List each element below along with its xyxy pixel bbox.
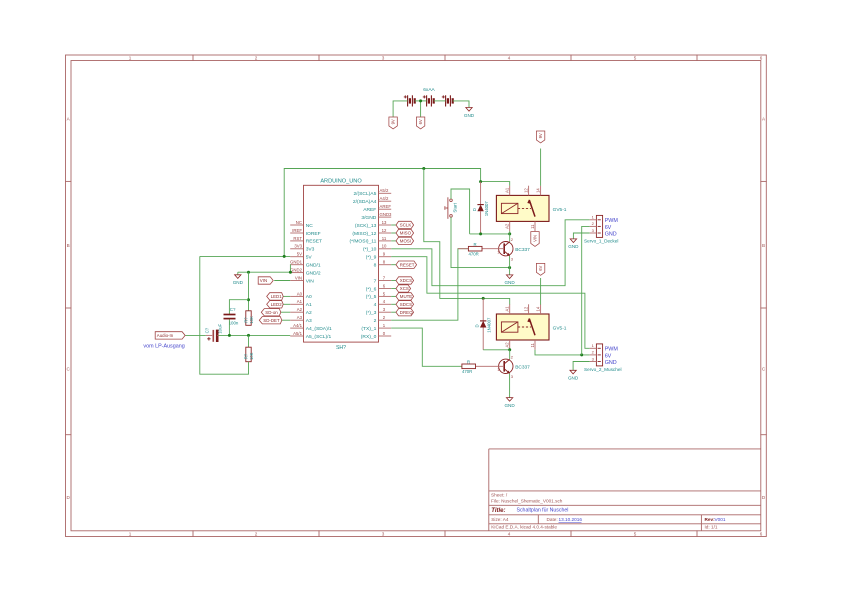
wire xyxy=(283,303,290,305)
global label LED1 xyxy=(267,293,284,300)
pin 1 xyxy=(379,327,392,329)
svg-text:2: 2 xyxy=(255,56,258,61)
svg-text:Title:: Title: xyxy=(491,508,505,514)
wire divider top xyxy=(248,272,250,311)
svg-text:10: 10 xyxy=(382,244,387,249)
global label SD-on xyxy=(261,309,281,316)
resistor R? divider top xyxy=(246,311,251,326)
wire xyxy=(274,280,290,282)
global label RESET xyxy=(396,261,417,268)
pin 11 xyxy=(379,240,392,242)
svg-text:1N4007: 1N4007 xyxy=(484,201,489,217)
global label 9V (battery +) xyxy=(389,117,397,129)
svg-text:A4/1: A4/1 xyxy=(293,323,302,328)
capacitor C? 10uF polarized xyxy=(204,323,222,342)
svg-text:A4_(SDA)/1: A4_(SDA)/1 xyxy=(306,326,332,332)
svg-text:A5_(SCL)/1: A5_(SCL)/1 xyxy=(306,334,332,340)
svg-text:A1: A1 xyxy=(505,306,510,312)
wire battery right to ground xyxy=(453,101,469,108)
svg-text:Sheet: /: Sheet: / xyxy=(491,492,508,497)
svg-text:4: 4 xyxy=(374,302,377,308)
global label SD-DET xyxy=(259,317,282,324)
svg-text:A2: A2 xyxy=(505,342,510,348)
svg-text:5: 5 xyxy=(634,531,637,536)
svg-text:3V3: 3V3 xyxy=(306,247,315,253)
svg-text:2/(SDA)A4: 2/(SDA)A4 xyxy=(353,199,377,205)
svg-text:6V: 6V xyxy=(605,225,612,231)
svg-text:SDCS: SDCS xyxy=(400,302,412,307)
svg-text:Size: A4: Size: A4 xyxy=(491,517,509,522)
svg-text:LED2: LED2 xyxy=(271,302,283,307)
wire xyxy=(391,224,396,226)
global label LED2 xyxy=(267,301,284,308)
wire battery left to 9V tap xyxy=(393,101,408,117)
svg-text:(SCK)_13: (SCK)_13 xyxy=(355,223,377,229)
pin 5 xyxy=(379,295,392,297)
resistor R? divider bottom xyxy=(246,347,251,362)
wire node row to A5 xyxy=(218,334,290,336)
pin GND/2 xyxy=(290,272,303,274)
svg-text:6: 6 xyxy=(760,56,763,61)
global label Audio-In xyxy=(155,332,185,339)
svg-text:DREQ: DREQ xyxy=(400,310,413,315)
svg-text:GND: GND xyxy=(605,360,617,366)
svg-text:6V: 6V xyxy=(418,119,423,124)
svg-text:RST: RST xyxy=(293,236,302,241)
svg-text:NC: NC xyxy=(306,223,314,229)
svg-text:ARDUINO_UNO: ARDUINO_UNO xyxy=(320,178,362,184)
global label VIN (arduino) xyxy=(258,277,273,284)
svg-text:9V: 9V xyxy=(391,119,396,124)
wire pin10 to servo1 PWM xyxy=(391,220,590,286)
svg-text:3V3: 3V3 xyxy=(294,244,302,249)
svg-text:6V: 6V xyxy=(538,265,543,270)
svg-text:SH?: SH? xyxy=(336,345,346,351)
svg-text:PWM: PWM xyxy=(605,347,619,353)
svg-text:(MISO)_12: (MISO)_12 xyxy=(352,231,376,237)
wire servo1 6V down xyxy=(582,226,590,355)
svg-text:5V: 5V xyxy=(297,252,302,257)
svg-text:BC337: BC337 xyxy=(515,364,530,370)
wire A2 stub xyxy=(509,350,511,359)
title block xyxy=(489,449,761,531)
svg-text:GND1: GND1 xyxy=(290,260,303,265)
svg-text:C?: C? xyxy=(204,327,209,333)
relay GV5-1 (1) xyxy=(496,186,566,231)
wire pin9 to servo2 PWM xyxy=(391,257,590,349)
wire xyxy=(391,288,396,290)
global label SCLK xyxy=(396,221,414,228)
svg-text:9V: 9V xyxy=(538,133,543,138)
global label XCS xyxy=(396,285,411,292)
svg-text:GND2: GND2 xyxy=(290,268,303,273)
svg-text:GND: GND xyxy=(568,376,579,381)
wire 6V to relay1 pin14 xyxy=(540,149,542,186)
pin 13 xyxy=(379,224,392,226)
wire C 100n to node xyxy=(228,320,230,336)
wire xyxy=(283,295,290,297)
svg-text:VIN: VIN xyxy=(306,278,315,284)
wire xyxy=(391,303,396,305)
svg-text:IOREF: IOREF xyxy=(306,231,321,237)
wire xyxy=(391,240,396,242)
global label 6V (battery tap) xyxy=(416,117,424,129)
svg-text:GND: GND xyxy=(504,280,515,285)
wire xyxy=(281,311,290,313)
resistor R? 470R (2) xyxy=(462,360,504,374)
transistor Q? BC337 (2) xyxy=(497,355,530,379)
svg-text:1: 1 xyxy=(129,56,132,61)
svg-text:V001: V001 xyxy=(715,517,726,522)
wire to C 100n xyxy=(229,300,248,314)
ground (servo2) xyxy=(568,370,579,380)
wire 6V to relay2 pin14 xyxy=(540,278,542,305)
svg-text:Servo_2_Muschel: Servo_2_Muschel xyxy=(584,367,622,372)
resistor R? 470R (1) xyxy=(458,242,504,256)
svg-text:MISO: MISO xyxy=(400,231,412,236)
svg-text:GND: GND xyxy=(464,113,475,118)
pin A2 xyxy=(290,311,303,313)
svg-text:3: 3 xyxy=(382,531,385,536)
svg-text:A3: A3 xyxy=(297,315,303,320)
svg-text:A1: A1 xyxy=(297,299,303,304)
svg-text:14: 14 xyxy=(535,306,540,311)
pin AREF xyxy=(379,208,392,210)
svg-text:GV5-1: GV5-1 xyxy=(553,207,567,213)
svg-text:12: 12 xyxy=(382,228,387,233)
battery BT 6xAA xyxy=(404,87,453,106)
wire bottom rail to 5V xyxy=(200,256,249,374)
svg-text:2/(SCL)A5: 2/(SCL)A5 xyxy=(353,191,376,197)
svg-text:D: D xyxy=(472,208,477,211)
wire audio-in xyxy=(185,334,205,336)
svg-text:Start: Start xyxy=(453,202,458,212)
wire servo1 gnd xyxy=(573,233,589,239)
svg-text:A2: A2 xyxy=(297,307,303,312)
svg-text:R?: R? xyxy=(243,317,248,323)
svg-text:NC: NC xyxy=(296,220,302,225)
wire relay1 A2 row xyxy=(470,233,510,235)
global label SDCS xyxy=(396,301,414,308)
svg-text:A5/2: A5/2 xyxy=(380,188,389,193)
wire A2 stub to row xyxy=(509,231,511,234)
svg-text:GND: GND xyxy=(568,244,579,249)
wire emitter2 to gnd xyxy=(509,374,511,398)
svg-text:(*)_9: (*)_9 xyxy=(366,255,377,261)
svg-text:GND/1: GND/1 xyxy=(306,263,321,269)
svg-text:A0: A0 xyxy=(297,291,303,296)
svg-text:A2: A2 xyxy=(505,223,510,229)
resistor body xyxy=(462,364,476,369)
svg-text:VIN: VIN xyxy=(533,235,538,242)
svg-text:12: 12 xyxy=(523,306,528,311)
svg-text:2: 2 xyxy=(374,318,377,324)
global label MOSI xyxy=(396,237,414,244)
pin 7 xyxy=(379,280,392,282)
pin A0 xyxy=(290,295,303,297)
svg-text:Schaltplan für Nuschel: Schaltplan für Nuschel xyxy=(517,508,569,514)
svg-text:6: 6 xyxy=(760,531,763,536)
svg-text:LED1: LED1 xyxy=(271,294,283,299)
wire relay2 A2 row xyxy=(483,349,510,351)
svg-text:(*)_6: (*)_6 xyxy=(366,286,377,292)
svg-text:XDCS: XDCS xyxy=(400,278,412,283)
svg-text:D: D xyxy=(475,324,480,327)
svg-text:13: 13 xyxy=(382,220,387,225)
pin GND3 xyxy=(379,216,392,218)
connector J? Servo_2_Muschel xyxy=(584,343,622,372)
svg-text:(*)_5: (*)_5 xyxy=(366,294,377,300)
svg-text:GND: GND xyxy=(605,231,617,237)
wire battery cell link with 6V tap xyxy=(415,100,427,102)
pin A4_(SDA)/1 xyxy=(290,327,303,329)
svg-text:Audio-In: Audio-In xyxy=(157,333,174,338)
global label VIN (relay1 out) xyxy=(531,232,539,247)
wire divider bottom xyxy=(248,335,250,347)
svg-text:(*)_3: (*)_3 xyxy=(366,310,377,316)
global label 9V (relay1 supply) xyxy=(536,131,544,143)
push button Start xyxy=(445,197,458,219)
diode D 1N4007 (1) xyxy=(472,182,489,234)
capacitor C? 100n xyxy=(224,307,239,325)
svg-text:Rev:: Rev: xyxy=(705,517,716,522)
svg-text:(*/MOSI)_11: (*/MOSI)_11 xyxy=(349,239,376,245)
svg-text:10K: 10K xyxy=(249,352,254,360)
svg-text:1: 1 xyxy=(129,531,132,536)
pin A4/2 xyxy=(379,200,392,202)
transistor Q? BC337 (1) xyxy=(497,237,530,261)
pin GND/1 xyxy=(290,264,303,266)
svg-text:10uF: 10uF xyxy=(218,323,223,333)
wire xyxy=(391,295,396,297)
svg-text:8: 8 xyxy=(374,263,377,269)
pin A5_(SCL)/1 xyxy=(290,335,303,337)
wire battery cell link xyxy=(434,100,446,102)
wire 5V rail to relay coils xyxy=(200,255,290,257)
svg-text:vom LP-Ausgang: vom LP-Ausgang xyxy=(143,343,184,349)
pin A5/2 xyxy=(379,192,392,194)
svg-text:A1: A1 xyxy=(505,187,510,193)
svg-text:AREF: AREF xyxy=(380,204,392,209)
svg-text:VIN: VIN xyxy=(295,275,302,280)
ground (servo1) xyxy=(568,239,579,249)
wire to relay1 A1 xyxy=(481,182,510,186)
wire xyxy=(391,280,396,282)
svg-text:MUTE: MUTE xyxy=(400,294,413,299)
wire ground rail xyxy=(238,271,291,273)
Arduino UNO module SH? xyxy=(290,178,392,350)
svg-text:3: 3 xyxy=(382,56,385,61)
pin 2 xyxy=(379,319,392,321)
pin 4 xyxy=(379,303,392,305)
svg-text:14: 14 xyxy=(535,188,540,193)
global label DREQ xyxy=(396,309,414,316)
svg-text:PWM: PWM xyxy=(605,218,619,224)
pin 5V xyxy=(290,256,303,258)
svg-text:13.10.2016: 13.10.2016 xyxy=(559,517,583,522)
wire pin1 to R2 xyxy=(391,328,462,366)
wire xyxy=(391,264,396,266)
svg-text:SD-DET: SD-DET xyxy=(263,318,280,323)
svg-text:6xAA: 6xAA xyxy=(423,87,435,93)
svg-text:11: 11 xyxy=(530,224,535,229)
svg-text:1N4007: 1N4007 xyxy=(486,317,491,333)
svg-text:IREF: IREF xyxy=(292,228,302,233)
svg-text:11: 11 xyxy=(382,236,387,241)
wire pin2 to R1 xyxy=(391,249,468,321)
ground (battery) xyxy=(464,108,475,118)
svg-text:GND3: GND3 xyxy=(380,212,393,217)
svg-text:GV5-1: GV5-1 xyxy=(553,326,567,332)
pin IOREF xyxy=(290,232,303,234)
global label MUTE xyxy=(396,293,414,300)
svg-text:470R: 470R xyxy=(462,369,472,374)
pin 9 xyxy=(379,256,392,258)
svg-text:R: R xyxy=(467,360,470,365)
wire xyxy=(282,319,290,321)
svg-text:BC337: BC337 xyxy=(515,247,530,253)
svg-text:A5/1: A5/1 xyxy=(293,331,302,336)
wire branch to relay2 xyxy=(424,169,510,305)
svg-text:Id: 1/1: Id: 1/1 xyxy=(705,525,718,530)
svg-text:GND/2: GND/2 xyxy=(306,270,321,276)
svg-text:RESET: RESET xyxy=(306,239,322,245)
svg-text:7: 7 xyxy=(374,278,377,284)
svg-text:10K: 10K xyxy=(249,316,254,324)
svg-text:SCLK: SCLK xyxy=(400,223,412,228)
svg-text:A4/2: A4/2 xyxy=(380,196,389,201)
svg-text:5: 5 xyxy=(634,56,637,61)
svg-text:AREF: AREF xyxy=(363,207,376,213)
diode D 1N4007 (2) xyxy=(475,298,492,349)
svg-text:3/GND: 3/GND xyxy=(361,215,376,221)
svg-text:A0: A0 xyxy=(306,294,312,300)
pin 3V3 xyxy=(290,248,303,250)
svg-text:Date:: Date: xyxy=(547,517,558,522)
svg-text:4: 4 xyxy=(508,56,511,61)
svg-text:KiCad E.D.A. kicad 4.0.4-stab: KiCad E.D.A. kicad 4.0.4-stable xyxy=(491,525,557,530)
svg-text:5V: 5V xyxy=(306,255,313,261)
svg-text:VIN: VIN xyxy=(260,278,267,283)
connector J? Servo_1_Deckel xyxy=(584,215,618,244)
svg-text:12: 12 xyxy=(523,188,528,193)
svg-text:A3: A3 xyxy=(306,318,312,324)
svg-text:GND: GND xyxy=(233,280,244,285)
svg-text:11: 11 xyxy=(530,342,535,347)
pin RESET xyxy=(290,240,303,242)
pin 12 xyxy=(379,232,392,234)
svg-text:(*)_10: (*)_10 xyxy=(363,247,377,253)
wire button bottom xyxy=(451,217,510,267)
wire xyxy=(391,232,396,234)
pin VIN xyxy=(290,280,303,282)
ground (Q2 emitter) xyxy=(504,398,515,408)
pin 0 xyxy=(379,335,392,337)
pin 8 xyxy=(379,264,392,266)
svg-text:R: R xyxy=(474,242,477,247)
svg-text:SD-on: SD-on xyxy=(265,310,278,315)
svg-text:B: B xyxy=(67,243,70,248)
global label MISO xyxy=(396,229,414,236)
svg-text:(RX)_0: (RX)_0 xyxy=(361,334,377,340)
svg-text:4: 4 xyxy=(508,531,511,536)
svg-text:2: 2 xyxy=(255,531,258,536)
svg-text:RESET: RESET xyxy=(400,262,415,267)
svg-text:100n: 100n xyxy=(229,320,239,325)
wire emitter to gnd xyxy=(509,256,511,275)
svg-text:(TX)_1: (TX)_1 xyxy=(361,326,376,332)
svg-text:R?: R? xyxy=(243,353,248,359)
svg-text:XCS: XCS xyxy=(400,286,409,291)
svg-text:A1: A1 xyxy=(306,302,312,308)
global label XDCS xyxy=(396,277,414,284)
pin 3 xyxy=(379,311,392,313)
pin 10 xyxy=(379,248,392,250)
svg-text:File: Nuschel_Shematic_V001.sc: File: Nuschel_Shematic_V001.sch xyxy=(491,499,563,504)
global label 6V (relay2 supply) xyxy=(536,263,544,275)
wire collector xyxy=(509,234,511,242)
pin NC xyxy=(290,224,303,226)
svg-text:GND: GND xyxy=(504,403,515,408)
wire button top xyxy=(451,189,470,234)
resistor body xyxy=(468,246,482,251)
wire servo2 gnd xyxy=(573,362,590,371)
svg-text:A2: A2 xyxy=(306,310,312,316)
ground (Q1 emitter) xyxy=(504,275,515,285)
wire relay2 pin11 to servo power xyxy=(535,350,590,355)
pin A1 xyxy=(290,303,303,305)
pin A3 xyxy=(290,319,303,321)
relay GV5-1 (2) xyxy=(496,304,566,349)
wire xyxy=(391,311,396,313)
svg-text:6V: 6V xyxy=(605,353,612,359)
svg-text:Servo_1_Deckel: Servo_1_Deckel xyxy=(584,239,618,244)
pin 6 xyxy=(379,288,392,290)
svg-text:470R: 470R xyxy=(469,251,479,256)
svg-text:B: B xyxy=(762,243,765,248)
svg-text:MOSI: MOSI xyxy=(400,239,411,244)
svg-text:C?: C? xyxy=(230,307,236,312)
ground (arduino) xyxy=(233,275,244,285)
